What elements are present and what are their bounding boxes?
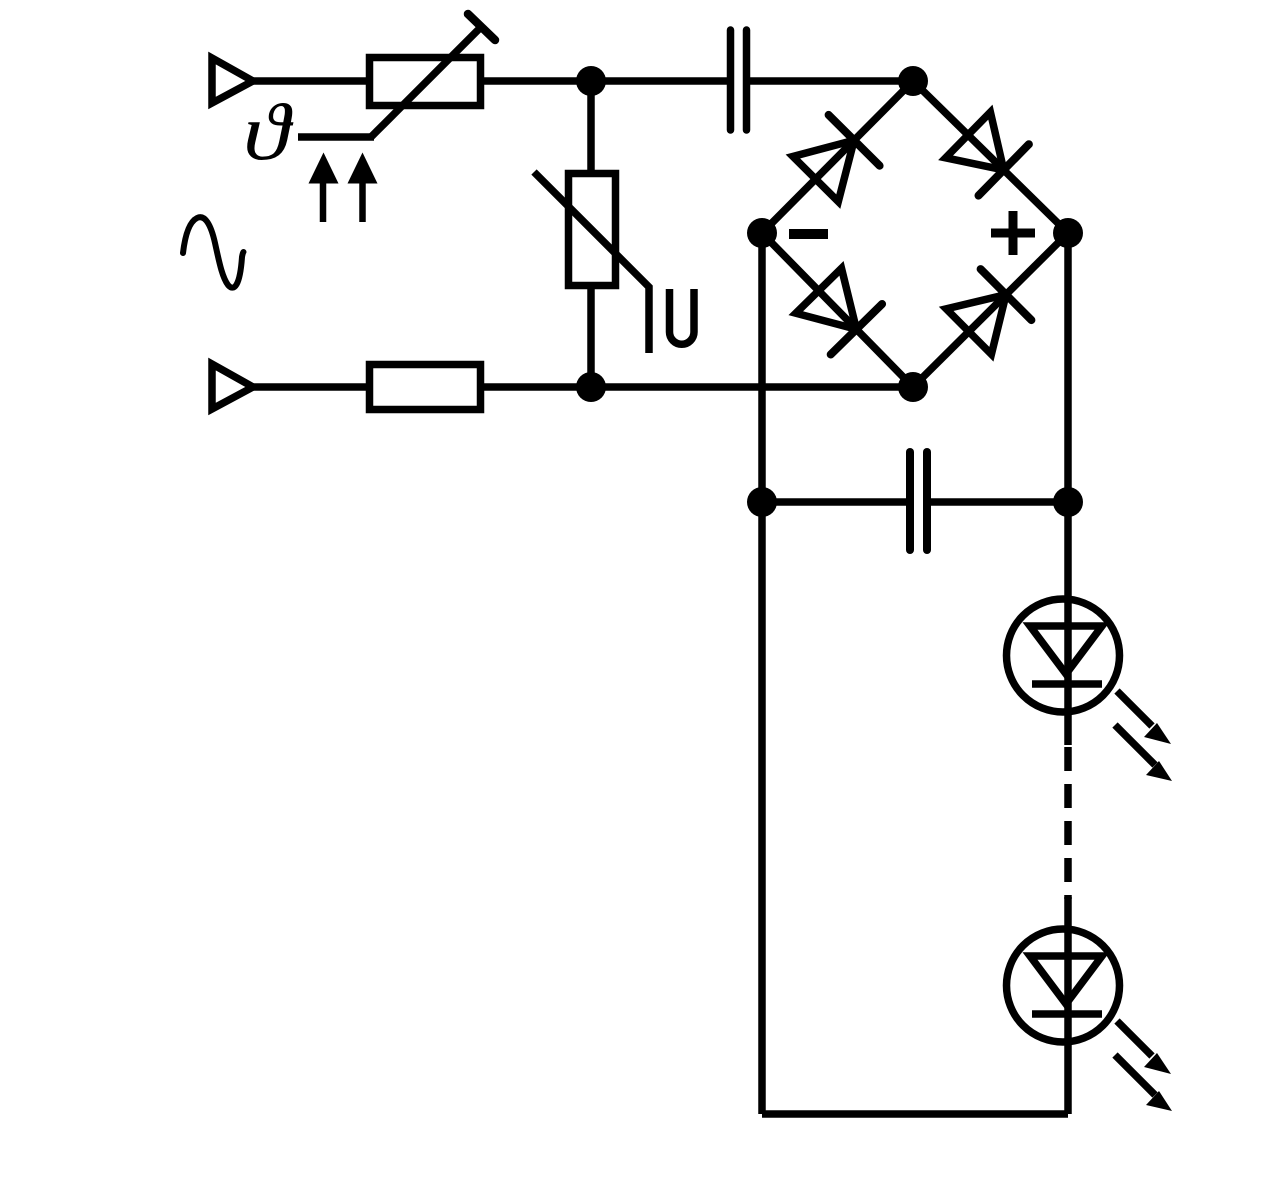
wire from varistor down to bottom junction <box>587 286 595 387</box>
LED1 cathode bar <box>1032 680 1102 688</box>
smoothing capacitor wire right <box>931 498 1068 506</box>
junction dot bottom (varistor bottom) <box>576 372 606 402</box>
input terminal bottom <box>212 364 253 409</box>
wire bottom from terminal to resistor <box>253 383 368 391</box>
smoothing capacitor wire left <box>762 498 906 506</box>
bridge plus label <box>991 229 1035 238</box>
diode D2 cathode bar <box>979 144 1029 195</box>
bridge edge bottom-left <box>762 233 913 387</box>
bridge edge top-left <box>762 81 913 233</box>
diode D2 triangle <box>946 112 1004 170</box>
diode D4 triangle <box>946 295 1006 355</box>
diode D1 triangle <box>793 140 854 201</box>
temperature arrow 2 <box>359 182 366 222</box>
wire top from terminal to thermistor <box>253 77 368 85</box>
capacitor C1 right plate <box>743 30 751 130</box>
LED1 wire through <box>1064 600 1072 745</box>
right rail wire (plus) to LED1 <box>1064 233 1072 600</box>
junction dot top (varistor top) <box>576 66 606 96</box>
varistor label U <box>670 289 695 344</box>
LED1 triangle <box>1030 626 1102 674</box>
thermistor R1 diagonal stroke <box>371 27 481 137</box>
theta label wire <box>298 133 374 141</box>
diode D3 cathode bar <box>831 304 882 355</box>
junction dot C2 left <box>747 487 777 517</box>
bridge edge bottom-right <box>913 233 1068 387</box>
diode D1 cathode bar <box>829 115 880 166</box>
AC source symbol ~ <box>183 217 244 287</box>
wire from top junction down to varistor <box>587 81 595 173</box>
bridge top node <box>898 66 928 96</box>
thermistor R1 top bar <box>468 14 495 40</box>
bridge right node <box>1053 218 1083 248</box>
varistor R3 diagonal stroke <box>534 172 649 353</box>
LED2 light arrow 1 <box>1117 1021 1152 1056</box>
varistor R3 body <box>569 174 616 286</box>
bridge left node <box>747 218 777 248</box>
LED2 triangle <box>1030 956 1102 1004</box>
bridge minus label <box>789 229 828 239</box>
bridge edge top-right <box>913 81 1068 233</box>
resistor R2 body <box>370 365 481 410</box>
left rail wire <box>758 233 766 1114</box>
input terminal top <box>212 58 253 103</box>
svg-text:ϑ: ϑ <box>243 88 294 177</box>
capacitor C1 left plate <box>727 30 735 130</box>
capacitor C2 right plate <box>923 452 931 550</box>
LED2 wire through <box>1064 897 1072 1114</box>
wire top from thermistor to capacitor C1 <box>482 77 727 85</box>
wire top from capacitor C1 to bridge top node <box>750 77 913 85</box>
temperature arrow 1 <box>320 182 327 222</box>
bridge bottom node <box>898 372 928 402</box>
wire bottom from resistor to bridge bottom node <box>482 383 913 391</box>
capacitor C2 left plate <box>906 452 914 550</box>
LED1 circle <box>1007 599 1120 712</box>
LED2 circle <box>1007 929 1120 1042</box>
bottom return wire <box>762 1110 1068 1118</box>
dashed wire between LEDs <box>1064 747 1072 899</box>
diode D4 cathode bar <box>981 269 1032 320</box>
LED1 light arrow 2 <box>1115 725 1155 765</box>
junction dot C2 right <box>1053 487 1083 517</box>
LED1 light arrow 1 <box>1117 691 1152 726</box>
LED2 light arrow 2 <box>1115 1055 1155 1095</box>
thermistor R1 body <box>370 58 481 106</box>
diode D3 triangle <box>796 268 857 329</box>
LED2 cathode bar <box>1032 1010 1102 1018</box>
